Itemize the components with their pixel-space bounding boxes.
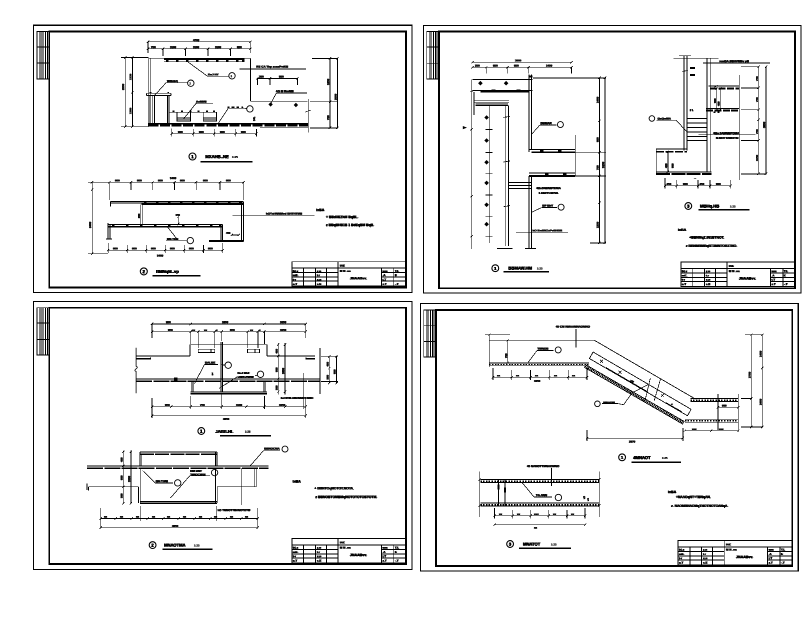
svg-text:ΝΜ BΝT: ΝΜ BΝT xyxy=(190,469,202,473)
leader callout DnJ xyxy=(188,62,235,79)
dim numbers rotated xyxy=(484,115,489,226)
equipment box outline xyxy=(190,345,267,356)
lower wall right face xyxy=(529,176,532,249)
svg-text:900: 900 xyxy=(208,246,213,250)
svg-text:xx: xx xyxy=(183,515,187,519)
svg-text:xx: xx xyxy=(499,512,503,516)
svg-text:1150: 1150 xyxy=(755,154,759,161)
svg-text:BN.THB: BN.THB xyxy=(167,237,179,241)
svg-text:MXAHB..NE: MXAHB..NE xyxy=(205,154,229,159)
slab top band xyxy=(480,480,599,483)
svg-text:xx: xx xyxy=(497,373,501,377)
svg-text:1850: 1850 xyxy=(222,320,229,324)
lower right ledge xyxy=(209,240,243,241)
svg-text:900: 900 xyxy=(137,178,142,182)
equipment box 2 xyxy=(203,112,216,121)
sheet TL detail 1 view xyxy=(121,38,339,162)
trench cover slab xyxy=(140,452,217,466)
svg-text:750: 750 xyxy=(200,403,205,407)
bottom slab xyxy=(656,172,711,174)
right break line xyxy=(319,348,321,394)
svg-text:1:25: 1:25 xyxy=(245,430,251,434)
svg-text:ixBA: ixBA xyxy=(668,490,677,494)
svg-text:950: 950 xyxy=(168,328,173,332)
svg-text:+ΝΛΛΟqΝΤ+ΤBΝqΛΝ.: +ΝΛΛΟqΝΤ+ΤBΝqΛΝ. xyxy=(676,495,711,499)
svg-text:ixBA: ixBA xyxy=(678,228,687,232)
svg-text:4700: 4700 xyxy=(193,38,200,42)
stair strip upper xyxy=(593,352,691,409)
dim small inside step xyxy=(256,77,298,85)
floor slab band xyxy=(148,124,308,128)
svg-text:450: 450 xyxy=(325,362,329,367)
svg-text:650: 650 xyxy=(230,328,235,332)
svg-text:3850: 3850 xyxy=(762,121,766,128)
svg-text:1250: 1250 xyxy=(128,73,132,80)
view title A xyxy=(492,265,549,272)
slab bottom band xyxy=(480,503,599,506)
sheet BR inner border xyxy=(436,310,792,566)
view title stair xyxy=(619,454,681,462)
sheet BR slab detail view xyxy=(478,464,600,548)
svg-text:BP BhT: BP BhT xyxy=(542,204,553,208)
dim below landing xyxy=(492,368,589,380)
svg-text:1050: 1050 xyxy=(279,403,286,407)
leader circle lower xyxy=(532,204,564,212)
svg-text:3850: 3850 xyxy=(223,417,230,421)
anchor bolts on step xyxy=(268,102,298,107)
svg-text:RS CA Thp zxxxPvtKB: RS CA Thp zxxxPvtKB xyxy=(256,65,289,69)
svg-text:ΜΝΛΟΤΜΛ: ΜΝΛΟΤΜΛ xyxy=(164,543,185,548)
sheet BR title block xyxy=(678,541,792,565)
sheet BL detail 1 view xyxy=(135,320,338,436)
right slab surface xyxy=(267,356,315,360)
svg-text:1.HBPPrBPBL: 1.HBPPrBPBL xyxy=(539,191,559,195)
leader lower xyxy=(166,228,194,244)
svg-text:900: 900 xyxy=(713,98,717,103)
upper landing top xyxy=(489,339,594,341)
svg-text:1100: 1100 xyxy=(236,403,243,407)
svg-text:3850: 3850 xyxy=(172,524,179,528)
svg-text:900: 900 xyxy=(722,404,727,408)
svg-text:1050: 1050 xyxy=(280,320,287,324)
svg-text:WRAH1: WRAH1 xyxy=(167,79,178,83)
sheet TL detail 2 view xyxy=(88,176,315,276)
svg-text:450: 450 xyxy=(667,182,672,186)
svg-text:45 ΝΛΝΟΤΤΜΝΛΟΜΝΟ: 45 ΝΛΝΟΤΤΜΝΛΟΜΝΟ xyxy=(527,464,560,468)
svg-text:5400: 5400 xyxy=(157,254,164,258)
svg-text:1250: 1250 xyxy=(596,221,600,228)
svg-text:750: 750 xyxy=(755,76,759,81)
svg-text:1850: 1850 xyxy=(281,368,285,374)
rebar note mid xyxy=(699,134,756,136)
svg-text:DALBE: DALBE xyxy=(205,361,215,365)
svg-text:xx: xx xyxy=(250,328,254,332)
svg-text:750: 750 xyxy=(326,115,330,120)
floor slab xyxy=(136,379,320,381)
step dim chain xyxy=(715,87,721,111)
svg-text:1100: 1100 xyxy=(193,45,200,49)
view title slab xyxy=(507,541,571,549)
sheet TR detail A view xyxy=(463,58,606,272)
middle slab right xyxy=(529,135,575,176)
svg-text:2550: 2550 xyxy=(121,83,125,90)
svg-text:hO ΤΜΝΟΤΤΜΛΝΟΤΟΤΜ: hO ΤΜΝΟΤΤΜΛΝΟΤΟΤΜ xyxy=(218,508,251,512)
svg-text:z BBΝΟBΤΟΜBΜqΝΟΤΟΤΟΤΟBΤΟΤΜ.: z BBΝΟBΤΟΜBΜqΝΟΤΟΤΟΤΟBΤΟΤΜ. xyxy=(315,495,377,499)
middle slab xyxy=(106,223,223,239)
svg-text:xx: xx xyxy=(516,373,520,377)
svg-text:45 CM ΝΜΛΛΜΝΛΟΜΝΟ: 45 CM ΝΜΛΛΜΝΛΟΜΝΟ xyxy=(556,325,591,329)
svg-text:1:25: 1:25 xyxy=(662,456,668,460)
rebar note xyxy=(536,186,561,195)
left marker triangle xyxy=(463,126,467,129)
svg-text:450: 450 xyxy=(120,457,124,462)
svg-text:450: 450 xyxy=(716,101,720,106)
svg-text:900: 900 xyxy=(716,182,721,186)
sheet BL title block xyxy=(292,539,406,563)
slab 1 xyxy=(709,86,740,88)
dim lines top xyxy=(151,323,307,348)
flight break marks xyxy=(645,378,661,401)
flight x marks xyxy=(600,360,682,412)
step outline right xyxy=(250,58,308,132)
sheet BL inner border xyxy=(49,308,406,564)
svg-text:1450: 1450 xyxy=(546,64,553,68)
svg-text:900: 900 xyxy=(180,178,185,182)
svg-text:450: 450 xyxy=(700,182,705,186)
leader circle upper xyxy=(532,122,564,134)
svg-text:MBHq.HB: MBHq.HB xyxy=(700,204,719,209)
svg-text:4Ωx5NBNBTEMA: 4Ωx5NBNBTEMA xyxy=(536,186,561,190)
svg-text:900: 900 xyxy=(151,246,156,250)
svg-text:ΩxΩπΜA: ΩxΩπΜA xyxy=(658,117,672,121)
svg-text:xx: xx xyxy=(571,512,575,516)
svg-text:500: 500 xyxy=(325,375,329,380)
lower landing bottom band xyxy=(685,419,739,422)
svg-text:ixBA: ixBA xyxy=(293,480,302,484)
svg-text:900: 900 xyxy=(670,163,674,168)
svg-text:JABB.HL: JABB.HL xyxy=(215,429,234,434)
left break line xyxy=(135,348,138,393)
left extension xyxy=(478,472,480,517)
leader callout top right xyxy=(250,446,288,466)
wall xyxy=(505,106,508,246)
svg-text:1250: 1250 xyxy=(326,78,330,85)
bottom note leader xyxy=(516,231,568,233)
top slab xyxy=(473,79,533,92)
middle slab right end xyxy=(221,225,223,242)
left slab surface xyxy=(136,356,190,360)
svg-text:ΤΜΝΟCΜΛΝ: ΤΜΝΟCΜΛΝ xyxy=(190,472,205,476)
sheet BR signature grid xyxy=(424,310,436,357)
svg-text:DnJ HY: DnJ HY xyxy=(208,72,219,76)
svg-text:900: 900 xyxy=(189,246,194,250)
sheet TR outer border xyxy=(423,25,801,293)
svg-text:1450: 1450 xyxy=(759,350,763,357)
svg-text:3600: 3600 xyxy=(515,58,522,62)
landing leader xyxy=(528,347,561,363)
bottom right small dim xyxy=(684,430,740,432)
extension line right of slabs xyxy=(738,75,740,180)
svg-text:xx: xx xyxy=(230,515,234,519)
trench under floor xyxy=(191,381,268,394)
svg-text:ΤA.ΛΝΝ: ΤA.ΛΝΝ xyxy=(536,493,547,497)
view title 1 xyxy=(189,153,253,162)
svg-text:xx: xx xyxy=(554,373,558,377)
bottom dim xyxy=(586,428,684,441)
right extension with note xyxy=(240,468,242,505)
svg-text:950: 950 xyxy=(493,64,498,68)
svg-text:z BBqBHB1B 1 BdEqBM BqB.: z BBqBHB1B 1 BdEqBM BqB. xyxy=(326,223,374,227)
svg-text:150: 150 xyxy=(176,213,181,217)
left shelf xyxy=(87,483,138,490)
svg-text:BBΝΟCΜΛ: BBΝΟCΜΛ xyxy=(264,447,280,451)
wall A xyxy=(707,58,710,172)
sheet TR signature grid xyxy=(427,32,439,79)
svg-text:xx: xx xyxy=(167,515,171,519)
dim line left xyxy=(88,181,109,255)
inner small dim xyxy=(667,151,669,173)
svg-text:750: 750 xyxy=(755,97,759,102)
right shelf xyxy=(217,468,256,487)
svg-text:1:25: 1:25 xyxy=(194,543,200,547)
slab 2 xyxy=(706,108,739,110)
svg-text:xx: xx xyxy=(199,515,203,519)
right dim chains xyxy=(533,77,606,245)
lower left slab xyxy=(656,149,687,174)
svg-text:z BBΝΜBΜBqBΤ3ΜΝΤΟB1ΤΝΟ.: z BBΝΜBΜBqBΤ3ΜΝΤΟB1ΤΝΟ. xyxy=(686,244,737,248)
svg-text:950: 950 xyxy=(333,369,337,374)
sheet TR title block xyxy=(681,262,795,286)
svg-text:xx: xx xyxy=(245,515,249,519)
right extension xyxy=(598,472,600,517)
svg-text:4xC0ΤΜ.ΛΜΛΝΜΟΤ.ΝΜΟ: 4xC0ΤΜ.ΛΜΛΝΜΟΤ.ΝΜΟ xyxy=(281,396,315,400)
dim line top segments xyxy=(147,48,252,56)
stair steps ladder xyxy=(687,119,707,141)
stair flight top edge xyxy=(594,340,695,399)
svg-text:750: 750 xyxy=(755,129,759,134)
svg-text:hOTxHNMMvd BHTHTMB: hOTxHNMMvd BHTHTMB xyxy=(266,212,303,216)
svg-text:900: 900 xyxy=(113,246,118,250)
svg-text:+ BBΝΤΟqΝΟΤΟΤ.ΝΟΤΛ.: + BBΝΤΟqΝΟΤΟΤ.ΝΟΤΛ. xyxy=(314,486,354,490)
svg-text:900: 900 xyxy=(274,367,278,372)
svg-text:1:25: 1:25 xyxy=(551,542,557,546)
svg-text:450: 450 xyxy=(274,349,278,354)
svg-text:xxx: xxx xyxy=(692,428,697,431)
curb with leader circle xyxy=(218,106,253,124)
svg-text:xx: xx xyxy=(120,515,124,519)
sheet BL notes xyxy=(293,480,378,500)
svg-text:750: 750 xyxy=(596,165,600,170)
far right small dim xyxy=(321,355,338,384)
svg-text:5400: 5400 xyxy=(170,176,177,180)
svg-text:xx: xx xyxy=(152,515,156,519)
svg-text:1: 1 xyxy=(212,372,214,376)
svg-text:xx: xx xyxy=(192,328,196,332)
dim line top xyxy=(108,181,245,200)
flight leader xyxy=(595,385,648,407)
sheet TL inner border xyxy=(49,32,406,288)
svg-text:DnJ BhF: DnJ BhF xyxy=(238,371,251,375)
svg-text:xx: xx xyxy=(214,515,218,519)
connection bars xyxy=(508,183,531,189)
svg-text:950: 950 xyxy=(166,320,171,324)
openings in box top xyxy=(198,349,259,353)
wall cap lines xyxy=(474,101,508,106)
svg-text:1100: 1100 xyxy=(170,45,177,49)
pier body hatch xyxy=(150,96,169,124)
gap dim xyxy=(177,216,179,226)
dim line top overall xyxy=(147,41,252,53)
svg-text:500: 500 xyxy=(120,493,124,498)
svg-text:1650: 1650 xyxy=(534,379,541,383)
svg-text:xxx: xxx xyxy=(534,512,539,516)
equipment box 1 xyxy=(177,112,190,121)
svg-text:300: 300 xyxy=(259,75,264,79)
leader callout wall xyxy=(155,80,195,96)
svg-text:950: 950 xyxy=(165,403,170,407)
long leader to note xyxy=(233,215,315,217)
sheet BL outer border xyxy=(34,302,412,570)
svg-text:2 L: 2 L xyxy=(690,108,694,112)
svg-text:xx: xx xyxy=(517,512,521,516)
svg-text:xx: xx xyxy=(553,512,557,516)
sheet TR detail B view xyxy=(649,56,770,210)
bottom wall ticks xyxy=(497,248,536,250)
dim lines bottom xyxy=(151,373,307,418)
center partition xyxy=(221,342,223,392)
svg-text:xx: xx xyxy=(136,515,140,519)
svg-text:xx: xx xyxy=(204,328,208,332)
wall between slabs xyxy=(141,204,143,224)
svg-text:Ν.ΜΟΤΤΛΜΟΤΜ: Ν.ΜΟΤΤΛΜΟΤΜ xyxy=(716,136,739,140)
svg-text:xx: xx xyxy=(104,515,108,519)
svg-text:900: 900 xyxy=(115,178,120,182)
svg-text:BBMAW.HM: BBMAW.HM xyxy=(508,266,532,271)
svg-text:4ΜΝΛΟΤ: 4ΜΝΛΟΤ xyxy=(633,455,651,460)
dim line bottom xyxy=(171,129,258,137)
upper landing soffit band xyxy=(489,363,589,366)
dim line left vertical xyxy=(121,56,148,128)
svg-text:900: 900 xyxy=(170,246,175,250)
right dim chains xyxy=(741,334,764,429)
landing small dim xyxy=(717,406,740,408)
floor slab xyxy=(87,466,268,468)
upper slab xyxy=(111,202,244,207)
slab leader xyxy=(522,482,562,500)
left dim chain xyxy=(122,451,132,505)
leader circle left xyxy=(649,116,687,132)
leader callout right xyxy=(219,371,264,388)
svg-text:1300: 1300 xyxy=(128,107,132,114)
svg-text:z. ΝΛΟΜBΝΛΟΜqΤΝΟΤΝΟΤΟΛΝqΛ.: z. ΝΛΟΜBΝΛΟΜqΤΝΟΤΝΟΤΟΛΝqΛ. xyxy=(671,504,728,508)
view title 1 xyxy=(198,428,271,436)
svg-text:950: 950 xyxy=(596,137,600,142)
svg-text:650: 650 xyxy=(237,45,242,49)
sheet BR outer border xyxy=(421,304,799,571)
svg-text:1550: 1550 xyxy=(127,476,131,482)
upper right wall and slab xyxy=(529,75,575,153)
stair soffit hatched band xyxy=(584,365,684,425)
stair strip lower xyxy=(589,359,687,416)
slab left end edge and outer dim xyxy=(470,79,475,249)
svg-text:xx: xx xyxy=(534,526,538,530)
svg-text:xxx: xxx xyxy=(719,428,724,431)
leader callout 2 xyxy=(171,469,218,498)
sheet TL signature grid xyxy=(37,32,49,79)
svg-text:750: 750 xyxy=(504,353,508,358)
svg-text:vHBZxCΜΟB: vHBZxCΜΟB xyxy=(238,375,254,379)
svg-text:AxMM8: AxMM8 xyxy=(196,100,207,104)
bottom dim xyxy=(664,178,732,189)
sheet BL detail 2 view xyxy=(87,446,288,549)
svg-text:ixBA: ixBA xyxy=(316,208,325,212)
small dim right xyxy=(231,234,240,236)
sheet TL title block xyxy=(292,262,406,286)
sheet BR notes xyxy=(668,490,728,508)
svg-text:2700: 2700 xyxy=(747,371,751,378)
lower landing top band xyxy=(690,399,738,402)
upper slab right end wall xyxy=(241,202,243,242)
view title 2 xyxy=(149,542,212,550)
svg-text:AS M RmMB: AS M RmMB xyxy=(276,89,295,93)
dim lines bottom xyxy=(100,506,260,529)
svg-text:ΤΜΝΟB: ΤΜΝΟB xyxy=(537,347,549,351)
svg-text:900: 900 xyxy=(132,246,137,250)
view title 2 xyxy=(140,268,200,276)
equipment shelf line xyxy=(169,111,217,113)
sheet TR inner border xyxy=(439,32,795,289)
sheet BR stair detail view xyxy=(485,325,764,463)
svg-text:ΜΝΛΤΟΤ: ΜΝΛΤΟΤ xyxy=(523,542,541,547)
wall pair crossing slab xyxy=(498,480,505,506)
svg-text:4Ωa.5AΜΝBPOΜA: 4Ωa.5AΜΝBPOΜA xyxy=(713,131,740,135)
svg-text:πmΩA.BBAVMBv pB: πmΩA.BBAVMBv pB xyxy=(719,59,750,63)
svg-text:900: 900 xyxy=(683,182,688,186)
landing extension lines xyxy=(718,394,738,432)
leader callout left xyxy=(195,362,232,384)
svg-text:1:25: 1:25 xyxy=(232,155,238,159)
svg-text:600: 600 xyxy=(120,475,124,480)
svg-text:5150: 5150 xyxy=(601,161,605,168)
svg-text:ΜΝΛΟΜ: ΜΝΛΟΜ xyxy=(603,401,615,405)
svg-text:900: 900 xyxy=(158,178,163,182)
trench walls and bottom xyxy=(139,468,218,503)
svg-text:900: 900 xyxy=(178,130,183,134)
right dim chains xyxy=(741,65,767,175)
svg-text:1050: 1050 xyxy=(280,328,287,332)
svg-text:1100: 1100 xyxy=(215,45,222,49)
wall left of pit xyxy=(148,58,250,126)
sheet TR notes xyxy=(678,228,737,248)
pier cap xyxy=(147,93,171,95)
leader callout 1 xyxy=(143,471,181,487)
svg-text:900: 900 xyxy=(203,178,208,182)
main wall xyxy=(679,56,691,151)
svg-text:14L: 14L xyxy=(252,116,256,121)
dim chain ticks xyxy=(486,116,511,236)
svg-text:900: 900 xyxy=(220,130,225,134)
svg-text:250: 250 xyxy=(475,64,480,68)
svg-text:BMNqM..vp: BMNqM..vp xyxy=(156,269,179,274)
svg-text:900: 900 xyxy=(226,178,231,182)
svg-text:750: 750 xyxy=(151,45,156,49)
sheet TL outer border xyxy=(34,25,412,292)
dim lines top xyxy=(471,61,572,74)
dim chain right xyxy=(310,57,339,129)
sheet BL signature grid xyxy=(37,308,49,355)
svg-text:DBMAR: DBMAR xyxy=(541,121,553,125)
svg-text:xx: xx xyxy=(535,373,539,377)
